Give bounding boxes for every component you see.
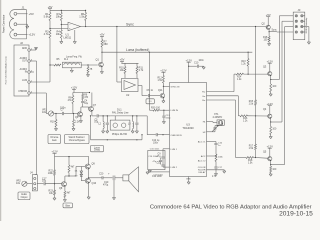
svg-text:47µ +: 47µ + <box>153 161 159 163</box>
svg-text:CHROM IN: CHROM IN <box>171 135 182 137</box>
svg-text:Q11: Q11 <box>158 89 163 92</box>
wire sync vertical V2 upper <box>255 26 256 27</box>
wire color killer to C18 <box>207 169 225 171</box>
svg-text:+12V: +12V <box>160 69 167 73</box>
capacitor C11 (lum2 coupling) <box>162 159 164 165</box>
resistor R4 <box>60 30 62 38</box>
svg-text:G ▸: G ▸ <box>202 95 205 98</box>
wire R1/R2 node to U1 non-inverting input <box>50 28 68 30</box>
callout chroma bypass switch <box>65 135 90 144</box>
ground (Q4) <box>270 135 272 137</box>
svg-text:J1: J1 <box>22 6 25 10</box>
svg-text:+5V: +5V <box>48 5 53 9</box>
svg-text:ACC: ACC <box>201 155 206 158</box>
svg-text:U2: U2 <box>126 93 130 97</box>
ground (speaker return) <box>113 180 115 197</box>
svg-text:100n: 100n <box>60 106 66 109</box>
capacitor C9 (lum1 coupling) <box>163 148 170 150</box>
ground (L3) <box>132 129 134 132</box>
svg-text:4.7k: 4.7k <box>44 32 50 36</box>
ground (R7b) <box>87 74 89 75</box>
wire R2 bottom to luma node <box>49 38 51 82</box>
ground (Q8 emitter) <box>64 197 66 199</box>
resistor R19c (Q3 emitter) <box>270 80 272 85</box>
op-amp U1 <box>68 22 81 30</box>
svg-text:4.7k: 4.7k <box>139 69 144 72</box>
inductor FL1 luma filter <box>63 62 82 68</box>
svg-text:Luma (buffered): Luma (buffered) <box>126 48 149 52</box>
diode D2 bias <box>80 173 82 174</box>
svg-text:Output: Output <box>21 196 28 199</box>
transistor Q11 (sync driver) <box>160 93 165 98</box>
transistor Q3 (red driver) <box>268 62 272 64</box>
capacitor C6 (sync coupling) <box>147 94 149 97</box>
potentiometer VR1 chroma gain <box>48 111 53 116</box>
resistor R18 (Q2 emitter) <box>268 32 270 37</box>
wire sync drop to U2 input <box>117 81 122 83</box>
svg-text:+12V: +12V <box>28 33 35 37</box>
svg-text:+12V: +12V <box>71 86 78 90</box>
power +12V (chroma preamp) <box>72 88 76 90</box>
op-amp U2 triangle <box>124 81 136 90</box>
svg-text:10k: 10k <box>56 32 61 36</box>
svg-text:Chroma: Chroma <box>50 136 59 139</box>
svg-text:Chroma Bypass: Chroma Bypass <box>69 139 86 142</box>
svg-text:FL1: FL1 <box>64 59 69 61</box>
callout bias <box>63 203 73 208</box>
svg-text:Philips DL700: Philips DL700 <box>112 133 128 136</box>
svg-text:1.5k: 1.5k <box>79 15 85 19</box>
wire Q7 collector up <box>91 93 93 107</box>
wire VR1 to R19a <box>54 113 62 115</box>
svg-text:From C64 Video/Audio Conn.: From C64 Video/Audio Conn. <box>5 55 8 84</box>
ground (C6) <box>106 125 108 131</box>
wire C6 to Q11 base <box>150 95 160 97</box>
connector J3 RGB <box>293 12 305 40</box>
wire Q2 emitter <box>268 29 270 31</box>
svg-text:C18 100n: C18 100n <box>154 175 164 177</box>
svg-text:Sync: Sync <box>272 29 278 31</box>
ground (FL1 shield) <box>71 68 73 71</box>
wire C7 to chroma amp <box>64 113 74 115</box>
svg-text:Audio: Audio <box>21 193 28 196</box>
wire delay line input top <box>114 116 116 120</box>
svg-text:RGB & Intensity: RGB & Intensity <box>305 17 308 33</box>
wire C12 to CHROM IN pin <box>158 134 170 136</box>
wire J2 chroma out <box>30 92 46 94</box>
wire acc1 pin <box>207 141 217 143</box>
wire +5V rail <box>50 9 86 11</box>
ground (R4) <box>60 38 62 42</box>
wire J1 pin2 to ground <box>17 23 28 25</box>
resistor R24 (Q8 emitter) <box>64 186 66 191</box>
callout chroma gain <box>48 135 61 144</box>
svg-text:IN: IN <box>25 72 28 74</box>
page left edge <box>0 0 2 221</box>
wire blue riser <box>284 27 286 165</box>
resistor R10 <box>124 63 126 66</box>
ground (J3) <box>307 41 310 43</box>
power +5V (divider rail) <box>49 9 51 11</box>
transistor Q5 (blue driver) <box>268 147 272 149</box>
trimmer capacitor CV1 <box>207 131 216 133</box>
connector J2 (C64 video/audio connector) <box>14 45 29 96</box>
svg-text:Q1: Q1 <box>96 57 100 61</box>
wire chroma preamp rail <box>73 92 90 94</box>
resistor R16 (G base) <box>240 115 248 117</box>
connector J4 audio output jack <box>32 175 37 191</box>
connector J1 (power connector) <box>10 10 27 39</box>
resistor R3 <box>60 10 62 12</box>
wire R3/R4 node to U1 inverting input <box>61 24 68 26</box>
svg-text:OUT: OUT <box>22 61 27 63</box>
power +5V (U2 rail) <box>120 60 124 62</box>
ground (Q5) <box>270 173 272 174</box>
transistor Q2 (sync output) <box>266 16 270 18</box>
svg-text:+5V: +5V <box>100 33 105 37</box>
wire J1 pin3 to +12V <box>17 34 28 36</box>
wire Q10 emitter to ground <box>88 183 90 197</box>
resistor R9 <box>82 93 84 94</box>
transistor Q7 (chroma amp 2) <box>89 107 94 112</box>
ground (acc network) <box>215 169 217 174</box>
ground (R18) <box>268 42 270 44</box>
crystal XT1 <box>217 120 224 125</box>
wire Q6 base <box>74 113 78 115</box>
wire Q9 base <box>81 166 85 168</box>
wire R13 to base row <box>247 66 249 74</box>
wire luma vertical V1 <box>248 52 249 53</box>
inductor L2 <box>103 122 104 124</box>
ground (J1 pin2) <box>26 24 28 26</box>
transistor Q8 audio preamp <box>62 182 67 187</box>
svg-text:C20: C20 <box>99 174 104 176</box>
resistor R15 in V2 <box>255 100 257 106</box>
transistor Q6 (chroma amp 1) <box>78 112 83 117</box>
wire J3 ground <box>305 26 309 28</box>
wire Q7 emitter to chroma node <box>91 111 93 116</box>
svg-text:10µ: 10µ <box>84 103 89 105</box>
wire sync rail to U2 drop <box>116 26 117 27</box>
wire B out to driver <box>207 99 236 101</box>
ground (C10) <box>203 65 205 68</box>
svg-text:+5V: +5V <box>120 58 125 62</box>
resistor R12 (Q11 collector) <box>162 76 164 84</box>
wire delay out <box>110 115 137 117</box>
capacitor C10 decoupling <box>188 66 189 67</box>
wire R1 to R2 <box>49 21 51 30</box>
ground (L2) <box>102 129 104 132</box>
resistor R21c (Q5 emitter) <box>270 165 272 167</box>
ground (J2 GND) <box>34 47 37 49</box>
wire R6 to sync rail <box>85 21 87 27</box>
svg-text:+12V: +12V <box>186 58 193 62</box>
resistor R7 <box>101 40 103 48</box>
svg-text:SYNC IN: SYNC IN <box>171 86 180 88</box>
svg-text:Power Connector: Power Connector <box>3 15 6 34</box>
transistor Q10 (push-pull bottom) <box>85 178 90 183</box>
wire R25 to Q8 collector / driver node <box>68 173 70 176</box>
wire luma buffered rail <box>102 51 252 53</box>
wire R18 to Q5 base <box>254 157 268 160</box>
svg-text:2019-10-15: 2019-10-15 <box>279 211 313 218</box>
wire J4 to C17 <box>37 183 43 185</box>
transistor Q1 <box>99 62 104 67</box>
resistor R23 bias lower <box>54 184 56 190</box>
ground (R19a) <box>55 127 57 129</box>
callout pulse box <box>146 99 154 104</box>
svg-text:J2: J2 <box>20 41 23 45</box>
wire bias chain <box>75 167 77 177</box>
wire R out to driver <box>207 91 235 93</box>
svg-text:Gain: Gain <box>52 140 58 142</box>
callout luma delay <box>91 145 104 151</box>
ground (color killer cap) <box>223 170 225 173</box>
wire U2 output down <box>138 85 142 87</box>
ground (filter box) <box>149 169 151 172</box>
capacitor C8 <box>136 116 138 123</box>
svg-text:ACC #2: ACC #2 <box>198 160 206 163</box>
svg-text:4.43MHz: 4.43MHz <box>213 116 224 119</box>
capacitor C5 <box>96 114 98 117</box>
resistor R20 (acc) <box>215 145 217 154</box>
wire audio +12V rail <box>55 156 90 158</box>
wire sync rail to Q2 base <box>265 26 267 29</box>
wire C17 to Q8 base <box>45 183 62 185</box>
wire luma rail down to U3 <box>149 52 150 53</box>
filter box C16/C18 <box>148 150 165 169</box>
wire Q4 emitter to riser <box>270 118 272 122</box>
svg-text:ACC #1: ACC #1 <box>198 141 206 144</box>
svg-text:C12 1µ: C12 1µ <box>152 140 160 142</box>
wire R16 to Q4 base <box>248 115 268 117</box>
resistor R20c (Q4 emitter) <box>270 122 272 127</box>
ground (input filter) <box>158 171 170 173</box>
svg-text:100n: 100n <box>153 143 159 145</box>
svg-text:Switch Position /: Switch Position / <box>68 136 85 139</box>
svg-text:LUM 2: LUM 2 <box>171 167 178 169</box>
capacitor C13 (lum in) <box>163 110 165 116</box>
svg-text:LM311: LM311 <box>64 35 72 39</box>
ground (Q6 emitter) <box>80 116 82 120</box>
ground (U3) <box>187 181 190 183</box>
wire U3 ground pin <box>188 177 190 183</box>
ground (Q11 emitter) <box>162 98 164 101</box>
wire acc2 pin <box>207 155 217 157</box>
svg-text:10µ: 10µ <box>42 179 47 182</box>
capacitor C16 (acc2) <box>215 162 217 167</box>
wire R8 to Q6 base <box>72 104 74 114</box>
capacitor C19 output electrolytic <box>103 177 112 179</box>
resistor R19a to ground <box>55 114 57 120</box>
resistor R7b to ground <box>87 65 89 67</box>
svg-text:B ▸: B ▸ <box>202 99 205 102</box>
transistor Q9 (push-pull top) <box>85 164 90 169</box>
svg-text:100n: 100n <box>199 60 205 62</box>
wire R3 to R4 <box>60 21 62 30</box>
resistor R11 <box>136 63 138 66</box>
svg-text:+12V: +12V <box>267 102 274 106</box>
wire Q3 emitter to riser <box>270 76 272 80</box>
resistor R14 (R base) <box>236 73 244 75</box>
capacitor C17 input coupling <box>43 182 45 185</box>
wire R12 to Q11 <box>162 83 164 93</box>
wire bypass rail left riser <box>90 116 92 140</box>
wire R22 to audio node <box>54 175 56 183</box>
svg-text:GND: GND <box>22 48 27 50</box>
svg-text:Luma Freq. Filt.: Luma Freq. Filt. <box>66 55 83 58</box>
wire J2 audio out to volume pot <box>30 60 36 62</box>
wire R30 to LUM IN pin <box>160 109 170 111</box>
svg-text:R ▸: R ▸ <box>202 91 205 94</box>
wire Q9 collector to rail <box>88 157 90 165</box>
svg-text:100k: 100k <box>48 173 54 175</box>
svg-text:Commodore 64 PAL Video to RGB: Commodore 64 PAL Video to RGB Adaptor an… <box>150 204 312 210</box>
capacitor C6 <box>106 116 108 123</box>
resistor R17 in V2 <box>255 144 257 150</box>
delay line DL1 <box>110 120 130 130</box>
svg-text:Q10: Q10 <box>92 182 97 185</box>
wire C5 to delay network <box>98 115 110 117</box>
capacitor C4 <box>82 100 84 102</box>
resistor R19 to ground <box>73 114 75 120</box>
capacitor C7 <box>61 112 63 115</box>
wire C19 return ground <box>114 177 116 179</box>
svg-text:C16 100n: C16 100n <box>148 156 158 158</box>
wire R10 to U2 <box>124 74 126 79</box>
wire H1 to crystal <box>207 121 214 123</box>
power +12V (audio rail) <box>53 152 57 154</box>
callout audio output <box>18 192 30 200</box>
resistor R5 (luma series) <box>54 64 61 66</box>
wire push-pull output node <box>88 169 90 179</box>
ground (C8) <box>136 125 138 131</box>
diode D1 bias <box>80 170 82 171</box>
wire audio feed into J4 <box>35 174 37 176</box>
potentiometer VR2 volume <box>22 181 27 186</box>
ground (R19) <box>73 127 75 129</box>
wire R11 to U2 <box>136 74 138 79</box>
resistor R2 <box>49 30 51 38</box>
svg-text:TDA3330: TDA3330 <box>182 126 194 130</box>
svg-text:LUM: LUM <box>22 80 27 82</box>
transistor Q4 (green driver) <box>268 105 272 107</box>
resistor R18 (B base) <box>246 157 254 159</box>
wire FL1 to Q1 base <box>81 64 98 66</box>
wire V2 lower <box>255 150 257 158</box>
svg-text:+5V: +5V <box>266 13 271 17</box>
svg-text:+12V: +12V <box>267 59 274 63</box>
resistor R13 <box>247 59 249 67</box>
capacitor C15 (acc) <box>214 142 217 144</box>
svg-text:PAL Delay Line: PAL Delay Line <box>112 111 129 114</box>
svg-text:680: 680 <box>104 43 109 46</box>
wire Q11 collector to U3 sync in <box>163 85 169 87</box>
svg-text:+12V: +12V <box>267 144 274 148</box>
wire C4 down <box>82 103 84 107</box>
svg-text:+12V: +12V <box>51 150 58 154</box>
capacitor C12 (chroma to U3) <box>155 133 157 136</box>
wire bypass rail to chroma feed <box>141 135 143 140</box>
resistor R22 bias upper <box>54 157 56 170</box>
ground (U1) <box>74 30 76 42</box>
wire Q5 emitter to riser <box>270 161 272 165</box>
wire V2 middle <box>255 105 257 144</box>
wire J2 audio in stub <box>30 71 34 73</box>
ground (Q3) <box>270 92 272 94</box>
speaker LS1 <box>123 175 129 181</box>
svg-text:5.6k: 5.6k <box>44 15 50 19</box>
ground (Q1 emitter) <box>101 67 103 72</box>
wire Q6 collector to Q7 base <box>80 107 82 112</box>
resistor R6 pull-up <box>85 10 87 12</box>
wire VR2 wiper to J4 <box>27 183 32 185</box>
IC U3 PAL decoder <box>170 83 207 177</box>
svg-text:CHROM: CHROM <box>18 91 27 93</box>
wire J2 luma out <box>30 81 50 83</box>
wire U2 +5V rail <box>121 62 138 64</box>
inductor L3 <box>133 122 134 124</box>
svg-text:R19: R19 <box>50 122 55 124</box>
resistor R25 (Q8 collector load) <box>68 157 70 165</box>
svg-text:C10: C10 <box>194 62 199 64</box>
wire U1 output sync rail <box>81 26 267 28</box>
wire J1 pin1 to +5V <box>17 13 28 15</box>
wire red riser <box>278 16 280 80</box>
wire delay out to chrom in <box>137 115 147 117</box>
resistor R1 <box>49 10 51 12</box>
svg-text:+5V: +5V <box>29 12 34 16</box>
op-amp U2 box <box>121 79 138 92</box>
svg-text:10k: 10k <box>56 15 61 19</box>
wire output to C19 <box>88 177 89 178</box>
ground (C13) <box>163 118 165 122</box>
capacitor C16 inside <box>160 158 162 160</box>
wire R14 to Q3 base <box>244 73 268 75</box>
wire J2 GND pin <box>30 49 36 51</box>
wire G out to driver <box>207 95 239 97</box>
svg-text:DELAY: DELAY <box>198 171 206 174</box>
power +5V (Q1 collector) <box>100 35 104 37</box>
svg-text:C15 100n: C15 100n <box>150 148 160 150</box>
svg-text:LUM 1: LUM 1 <box>171 149 178 151</box>
svg-text:Sync: Sync <box>126 22 134 26</box>
svg-text:220p: 220p <box>166 118 172 120</box>
wire green riser <box>281 21 283 122</box>
power +12V (Q11) <box>161 71 165 73</box>
resistor R30 (lum in series) <box>153 109 160 111</box>
svg-text:LUM IN: LUM IN <box>171 110 179 112</box>
ground (R23) <box>54 195 56 198</box>
svg-text:470µ: 470µ <box>103 185 109 187</box>
wire C19 to speaker <box>115 177 123 179</box>
wire chroma bypass rail <box>91 139 143 141</box>
capacitor C20 <box>101 176 103 179</box>
power +12V (U3) <box>187 61 191 63</box>
resistor R8 <box>72 93 74 96</box>
wire R7 to Q1 collector / luma tap <box>101 47 103 62</box>
svg-text:Delay: Delay <box>94 150 101 152</box>
